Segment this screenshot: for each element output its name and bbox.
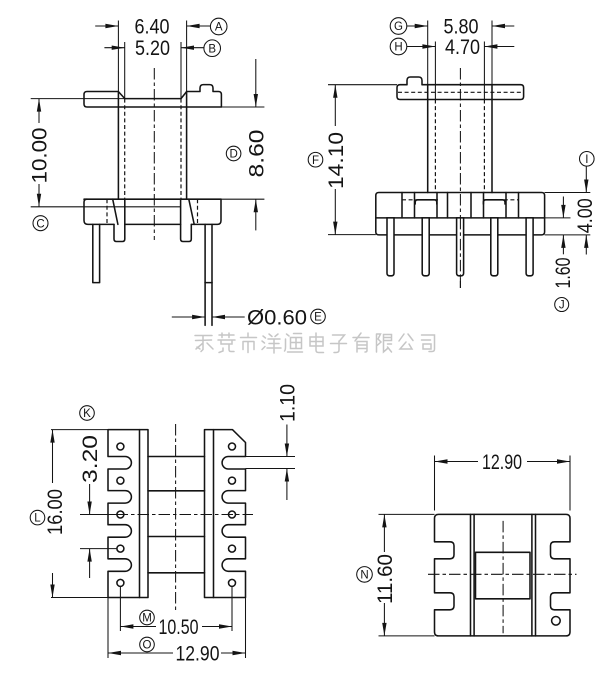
dimension 14.10 with label F bbox=[308, 85, 397, 235]
dimension 4.70 with label H bbox=[390, 36, 514, 59]
dimension 4.00 with label I bbox=[574, 152, 597, 255]
svg-text:1.60: 1.60 bbox=[552, 258, 575, 289]
tube wall lines bbox=[470, 514, 472, 636]
bottom flange step edge + 10.00 bottom extension bbox=[31, 206, 181, 208]
dimension 5.80 with label G bbox=[390, 15, 514, 38]
dimension 5.20 with label B bbox=[104, 37, 220, 60]
left core leg bbox=[114, 199, 125, 241]
svg-text:4.00: 4.00 bbox=[574, 198, 597, 233]
left rail with comb slots bbox=[108, 430, 148, 598]
svg-text:J: J bbox=[559, 300, 565, 312]
vertical centerline bbox=[175, 424, 177, 610]
watermark company name bbox=[195, 333, 435, 353]
svg-text:F: F bbox=[312, 155, 319, 167]
vertical centerline bbox=[502, 521, 504, 633]
svg-text:14.10: 14.10 bbox=[325, 132, 348, 189]
tube outer walls bbox=[427, 21, 429, 85]
base tier extension line bbox=[545, 217, 571, 219]
top flange bottom edge + 8.60 top extension bbox=[221, 106, 264, 108]
tube inner wall right (hidden) bbox=[180, 42, 182, 99]
core center hole bbox=[476, 552, 531, 599]
dimension 6.40 with label A bbox=[95, 15, 227, 38]
horizontal centerline bbox=[428, 573, 577, 575]
svg-text:K: K bbox=[83, 408, 91, 420]
tube inner wall left (hidden) bbox=[124, 42, 126, 99]
bottom flange draft diagonals bbox=[113, 199, 118, 224]
base hidden slot lines bbox=[402, 199, 438, 201]
dimension 16.00 with label L bbox=[30, 430, 108, 598]
left pin bbox=[93, 224, 100, 282]
top flange outline bbox=[84, 85, 221, 107]
top flange step edge + 10.00 top extension bbox=[31, 98, 125, 100]
dimension 1.10 bbox=[277, 384, 300, 500]
pin header base block bbox=[376, 193, 545, 235]
right core leg bbox=[181, 199, 192, 241]
horizontal centerline bbox=[80, 514, 117, 516]
vertical centerline bbox=[153, 68, 155, 240]
svg-text:10.00: 10.00 bbox=[28, 128, 51, 184]
tube outer wall right bbox=[186, 21, 188, 92]
svg-text:N: N bbox=[360, 570, 368, 582]
left rail inner edge bbox=[139, 430, 141, 598]
svg-text:Ø0.60: Ø0.60 bbox=[247, 306, 307, 329]
pin holes left column bbox=[117, 443, 124, 586]
svg-text:1.10: 1.10 bbox=[277, 384, 300, 422]
centerline across center pin bbox=[459, 218, 461, 288]
svg-text:5.20: 5.20 bbox=[135, 37, 170, 60]
base bottom extension line bbox=[545, 234, 591, 236]
dimension 12.90 (bottom view) bbox=[435, 451, 571, 511]
svg-text:G: G bbox=[394, 21, 403, 33]
svg-text:4.70: 4.70 bbox=[445, 36, 480, 59]
svg-text:12.90: 12.90 bbox=[482, 451, 522, 474]
svg-text:12.90: 12.90 bbox=[176, 642, 220, 665]
dimension 8.60 with label D bbox=[226, 59, 268, 230]
svg-text:M: M bbox=[142, 613, 152, 625]
body outline with side slots bbox=[435, 514, 571, 636]
svg-text:11.60: 11.60 bbox=[374, 554, 397, 604]
svg-text:16.00: 16.00 bbox=[44, 489, 67, 535]
bottom flange outline bbox=[84, 199, 221, 224]
pin 3 (center) bbox=[457, 218, 464, 276]
flange bar hidden mid line bbox=[398, 91, 523, 93]
base tower floor edges bbox=[415, 200, 437, 204]
bottom flange top edge + 8.60 bottom extension bbox=[84, 198, 221, 200]
svg-text:C: C bbox=[36, 218, 44, 230]
wire slot extension lines (1.10) bbox=[246, 456, 296, 458]
dimension 10.50 with label M bbox=[120, 587, 232, 639]
tube inner walls (hidden below bar) bbox=[434, 42, 436, 100]
pin 2 bbox=[422, 218, 429, 276]
svg-text:8.60: 8.60 bbox=[245, 130, 268, 178]
svg-text:L: L bbox=[34, 513, 41, 525]
svg-text:6.40: 6.40 bbox=[135, 15, 170, 38]
pin 5 bbox=[526, 218, 533, 276]
base tower edges bbox=[401, 193, 403, 218]
svg-text:10.50: 10.50 bbox=[159, 616, 199, 639]
dimension 12.90 with label O bbox=[108, 598, 246, 665]
dimension dia 0.60 with label E bbox=[172, 306, 326, 329]
svg-text:B: B bbox=[208, 43, 216, 55]
dimension 10.00 with label C bbox=[28, 99, 51, 231]
right rail inner edge bbox=[213, 430, 215, 598]
svg-text:I: I bbox=[585, 154, 588, 166]
svg-text:E: E bbox=[314, 312, 322, 324]
pin holes right column bbox=[229, 443, 236, 586]
right pin (long) bbox=[205, 224, 212, 325]
svg-text:O: O bbox=[143, 640, 152, 652]
tube outer wall left bbox=[117, 21, 119, 92]
base tier line bbox=[376, 217, 545, 219]
top flange bar bbox=[397, 77, 524, 100]
vertical centerline bbox=[459, 68, 461, 288]
right rail with comb slots and corner chamfer bbox=[205, 430, 246, 598]
label K bbox=[80, 406, 95, 421]
pin 1 bbox=[387, 218, 394, 276]
svg-text:D: D bbox=[229, 149, 237, 161]
svg-text:H: H bbox=[394, 42, 402, 54]
winding tube edges bbox=[148, 456, 205, 458]
mounting hole bbox=[552, 617, 561, 626]
dimension 11.60 with label N bbox=[357, 514, 435, 636]
dimension 3.20 bbox=[79, 435, 117, 578]
dimension 1.60 with label J bbox=[552, 197, 575, 312]
svg-text:A: A bbox=[215, 22, 223, 34]
bottom flange hidden slot lines bbox=[106, 199, 108, 224]
svg-text:3.20: 3.20 bbox=[79, 435, 102, 483]
pin 4 bbox=[491, 218, 498, 276]
base top extension line bbox=[545, 192, 591, 194]
